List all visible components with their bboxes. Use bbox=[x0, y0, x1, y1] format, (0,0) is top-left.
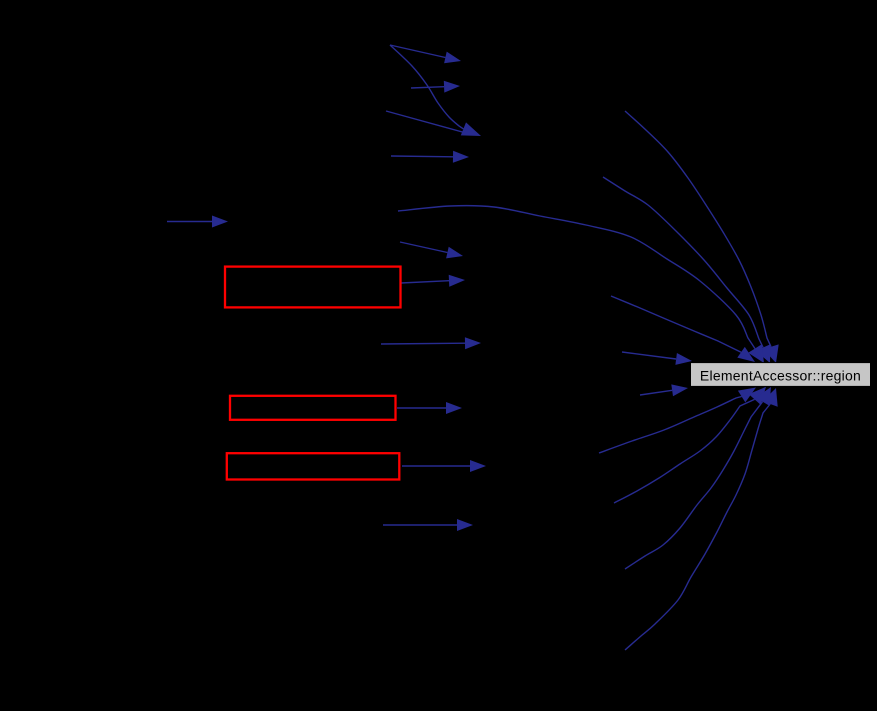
wire edge E6d direct arrow to node bottom-left corner bbox=[640, 384, 688, 396]
wire edge E6 from red box A bbox=[401, 275, 465, 287]
wire edge E7 bbox=[381, 337, 481, 349]
wire edge C9 bbox=[625, 387, 771, 569]
node ElementAccessor::region highlighted current node bbox=[691, 363, 871, 387]
wire edge E1 top fan upper bbox=[390, 45, 461, 63]
wire edge E4 bbox=[391, 151, 469, 163]
wire edge E2 bbox=[411, 81, 460, 93]
node box A red-bordered caller two-line bbox=[225, 267, 401, 308]
wire edge C10 lowest curve bbox=[625, 388, 778, 650]
node box B red-bordered caller bbox=[230, 396, 396, 420]
wire edge E5d direct arrow to node top-left corner bbox=[622, 352, 692, 365]
wire edge C7 bottom shallow curve bbox=[599, 388, 756, 454]
svg-text:ElementAccessor::region: ElementAccessor::region bbox=[700, 368, 861, 384]
wire edge E0 far-left caller into left column bbox=[167, 216, 228, 228]
node box C red-bordered caller bbox=[227, 453, 399, 479]
wire edge C1 steep top curve bbox=[625, 111, 779, 363]
wire edge C8 bbox=[614, 387, 766, 503]
wire edge C3 long gentle curve from left column bbox=[398, 206, 764, 363]
wire edge C4 shallow line into node bbox=[611, 296, 755, 362]
wire edge E1b curved branch of top fan bbox=[390, 45, 481, 136]
wire edge E8 from red box B bbox=[397, 402, 462, 414]
wire edge E5 bbox=[400, 242, 463, 258]
wire edge E9 from red box C bbox=[402, 460, 486, 472]
wire edge C2 second top curve bbox=[603, 177, 770, 363]
wire edge E3 into big shared arrowhead bbox=[386, 111, 466, 133]
wire edge E10 bbox=[383, 519, 473, 531]
